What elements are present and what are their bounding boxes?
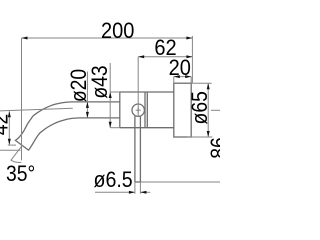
dim o65 line xyxy=(207,83,209,137)
svg-text:35°: 35° xyxy=(6,162,35,186)
angle 35 horizontal leg xyxy=(0,149,21,151)
dim 20 right extension line xyxy=(190,77,192,84)
angle 35 arc xyxy=(11,160,22,162)
spout tube and curved spout outline xyxy=(15,102,119,151)
dim 42 bottom arrow xyxy=(8,139,11,145)
dim 86 top extension stub centerline xyxy=(211,109,220,111)
dim o43 line xyxy=(109,63,111,128)
dim 200 line xyxy=(22,37,193,39)
dim o65 bottom extension stub xyxy=(187,136,212,138)
dim o43 bottom arrow xyxy=(109,122,112,128)
dim o43 bottom extension stub xyxy=(110,127,120,129)
dim o20 line xyxy=(86,72,88,118)
dim 20 line xyxy=(174,76,191,78)
angle 35 slanted leg xyxy=(11,147,22,161)
svg-text:ø43: ø43 xyxy=(88,65,112,98)
dim 200/62 right extension line at wall xyxy=(191,36,193,84)
dim o43 top arrow xyxy=(109,92,112,98)
dim o20 bottom arrow xyxy=(86,112,89,118)
body seam line left xyxy=(144,92,146,128)
dim 62 right arrow xyxy=(186,55,192,58)
dim o65 bottom arrow xyxy=(207,131,210,137)
dim o6.5 right line xyxy=(140,191,150,193)
faucet body cylinder o43 outline xyxy=(120,92,174,128)
dim 62 line xyxy=(138,56,192,58)
svg-text:20: 20 xyxy=(169,56,191,80)
handle lever rod left edge xyxy=(134,116,136,182)
svg-text:42: 42 xyxy=(0,114,13,136)
dim 200 right arrow xyxy=(186,37,192,40)
dim 42 line xyxy=(8,111,10,145)
dim 42 bottom extension line xyxy=(8,144,16,146)
dim 20 left extension line xyxy=(173,77,175,84)
handle lever rod right edge xyxy=(139,116,141,182)
dim o6.5 right extension xyxy=(139,182,141,194)
body seam line right xyxy=(146,92,148,128)
dim 62 left arrow xyxy=(138,55,144,58)
dim 86 bottom extension long line xyxy=(140,181,220,183)
dim 20 right arrow xyxy=(185,75,191,78)
dim 62 left extension line handle axis xyxy=(137,57,139,117)
dim o43 top extension stub xyxy=(110,91,120,93)
rod bottom edge xyxy=(135,181,141,183)
svg-text:ø65: ø65 xyxy=(188,91,212,124)
dim 20 left arrow xyxy=(174,75,180,78)
dim o6.5 left extension xyxy=(134,182,136,194)
dim 42 top extension line xyxy=(0,108,73,111)
handle pivot circle xyxy=(132,104,144,116)
dim 42 top arrow xyxy=(8,111,11,117)
dim o65 top arrow xyxy=(207,83,210,89)
dim o6.5 left line xyxy=(95,191,135,193)
pivot cross horizontal xyxy=(136,109,141,111)
svg-text:200: 200 xyxy=(101,19,134,43)
wall flange o65 rectangle xyxy=(174,83,191,137)
svg-text:ø6.5: ø6.5 xyxy=(94,168,133,192)
dim o20 top arrow xyxy=(86,102,89,108)
dim o65 top extension stub xyxy=(191,82,212,84)
dim 200 left arrow xyxy=(22,37,28,40)
pivot cross vertical xyxy=(137,108,139,113)
dim o6.5 right arrow xyxy=(140,191,146,194)
dim 86 line at right edge xyxy=(221,110,223,182)
dim 200 left extension line through spout tip xyxy=(21,38,23,160)
svg-text:86: 86 xyxy=(207,137,220,159)
dim o6.5 left arrow xyxy=(129,191,135,194)
